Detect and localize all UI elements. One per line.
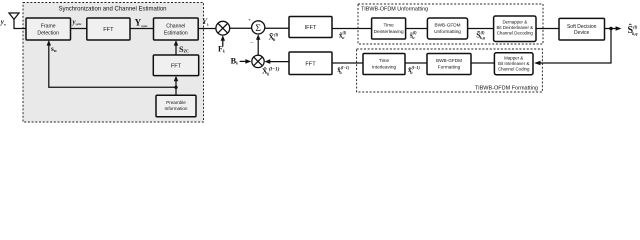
svg-text:Estimation: Estimation [164, 31, 188, 37]
wire multiplier M2 up to adder with arrow, minus sign [256, 34, 260, 55]
svg-text:Interleaving: Interleaving [372, 65, 397, 70]
multiplier M1 (equalizer product) [216, 21, 230, 35]
arrow S_ZC : FFT up into Channel Estimation [174, 40, 178, 55]
wire Preamble Information up to junction [175, 87, 177, 95]
svg-text:Channel: Channel [166, 24, 185, 30]
svg-text:S̃(l)k,q: S̃(l)k,q [476, 29, 485, 40]
wire Time Interleaving to FFT (feedback) [332, 62, 363, 64]
svg-text:Channel Decoding: Channel Decoding [497, 30, 534, 35]
svg-text:Demapper &: Demapper & [502, 19, 527, 24]
feedback wire from output node down and left into Mapper [534, 29, 611, 66]
svg-text:Preamble: Preamble [166, 100, 186, 105]
wire FFT to Channel Estimation [130, 28, 154, 30]
block Time Interleaving [363, 54, 405, 75]
block Demapper & Bit Deinterleaver & Channel Decoding [494, 16, 536, 42]
block Soft Decision Device [559, 18, 605, 40]
block Time Deinterleaving [372, 18, 406, 39]
svg-text:IFFT: IFFT [305, 25, 317, 31]
block Preamble Information [156, 95, 196, 116]
block Frame Detection [26, 18, 71, 40]
wire BWB-GFDM Formatting to Time Interleaving [405, 62, 427, 64]
svg-text:Frame: Frame [41, 24, 56, 30]
block Mapper & Bit Interleaver & Channel Coding [494, 53, 533, 75]
wire Demapper to Soft Decision Device [536, 28, 559, 30]
svg-text:Time: Time [379, 58, 390, 63]
svg-text:FFT: FFT [103, 27, 114, 33]
svg-text:Time: Time [383, 23, 394, 28]
block BWB-GFDM Formatting [427, 54, 471, 75]
svg-text:Σ: Σ [255, 23, 261, 34]
wire multiplier M1 to adder [230, 27, 252, 29]
wire antenna to Frame Detection [13, 28, 26, 30]
svg-text:BWB-GFDM: BWB-GFDM [436, 58, 462, 63]
svg-text:Deinterleaving: Deinterleaving [374, 29, 404, 34]
wire adder to IFFT [265, 27, 289, 29]
svg-text:Formatting: Formatting [438, 65, 461, 70]
wire IFFT to Time Deinterleaving [332, 28, 372, 30]
arrow B_k into multiplier M2 [240, 59, 252, 64]
wire Mapper to BWB-GFDM Formatting [471, 62, 494, 64]
multiplier M2 (interference reconstruction) [252, 55, 264, 67]
svg-text:Channel Coding: Channel Coding [498, 66, 530, 71]
svg-text:TIBWB-OFDM Formatting: TIBWB-OFDM Formatting [475, 86, 538, 92]
wire Channel Estimation to multiplier, node Y_k [198, 28, 216, 30]
output arrow [611, 26, 622, 31]
block IFFT [289, 17, 332, 38]
svg-text:Information: Information [165, 106, 188, 111]
dashed group box: TIBWB-OFDM Unformatting [358, 4, 543, 44]
svg-text:+: + [248, 17, 251, 23]
wire Soft Decision Device to output node [605, 28, 612, 30]
arrow F_k into multiplier M1 [221, 35, 225, 46]
block FFT (feedback path) [289, 52, 332, 75]
svg-text:Detection: Detection [37, 31, 59, 37]
antenna [9, 13, 19, 29]
svg-text:Synchronization and Channel Es: Synchronization and Channel Estimation [58, 7, 166, 13]
svg-text:Bit Deinterleaver &: Bit Deinterleaver & [496, 25, 533, 30]
adder A1 (sigma) [252, 21, 265, 34]
svg-text:Bit Interleaver &: Bit Interleaver & [498, 61, 529, 66]
junction node at preamble tap [174, 86, 177, 89]
junction node output [609, 27, 613, 31]
svg-text:Soft Decision: Soft Decision [567, 24, 597, 30]
svg-text:BWB-GFDM: BWB-GFDM [434, 23, 460, 28]
block FFT (sync path) [87, 18, 130, 40]
wire FFT feedback into multiplier M2 with left arrow [264, 59, 289, 64]
wire BWB-GFDM Unformatting to Demapper [468, 28, 494, 30]
block BWB-GFDM Unformatting [427, 18, 467, 39]
svg-text:Device: Device [574, 30, 590, 36]
arrow junction up into FFT (preamble) [174, 76, 178, 88]
block Channel Estimation [154, 18, 199, 40]
dashed group box: TIBWB-OFDM Formatting [357, 49, 543, 92]
svg-text:FFT: FFT [305, 61, 316, 67]
svg-text:TIBWB-OFDM Unformatting: TIBWB-OFDM Unformatting [361, 6, 428, 12]
block FFT (preamble path) [153, 55, 198, 76]
svg-text:FFT: FFT [171, 63, 182, 69]
wire junction left and up to Frame Detection with arrow [47, 40, 176, 87]
svg-text:Mapper &: Mapper & [504, 55, 523, 60]
wire Time Deinterleaving to BWB-GFDM Unformatting [406, 28, 428, 30]
dashed group box: Synchronization and Channel Estimation [23, 3, 204, 123]
svg-text:Unformatting: Unformatting [434, 29, 461, 34]
wire Frame Detection to FFT [71, 28, 87, 30]
